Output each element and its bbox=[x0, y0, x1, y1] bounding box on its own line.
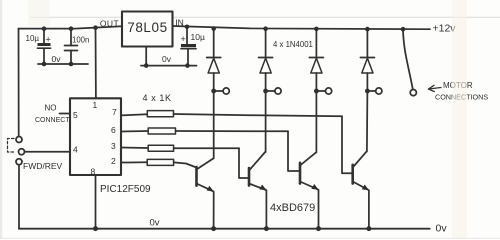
svg-text:0v: 0v bbox=[162, 54, 172, 64]
diode D3 1N4001 bbox=[309, 29, 323, 91]
node dot rail D3 bbox=[314, 27, 319, 32]
svg-text:+: + bbox=[181, 34, 186, 44]
wire regulator ground bbox=[141, 47, 197, 66]
wire 0v stub left bbox=[38, 63, 88, 65]
svg-text:IN: IN bbox=[175, 18, 184, 28]
IC U2 PIC12F509 bbox=[70, 98, 121, 175]
motor terminal node 4 bbox=[365, 88, 382, 94]
node dot rail D2 bbox=[263, 26, 268, 31]
diode D1 1N4001 bbox=[207, 29, 221, 92]
node dot C1 bottom bbox=[42, 62, 47, 67]
node dot C1 top bbox=[42, 26, 47, 31]
svg-text:4: 4 bbox=[73, 145, 78, 155]
node dot pin1 tap bbox=[93, 25, 98, 30]
node dot Q1 emitter rail bbox=[211, 226, 216, 231]
svg-text:CONNECT: CONNECT bbox=[35, 117, 70, 124]
wire base Q3 bbox=[288, 131, 300, 171]
svg-text:+: + bbox=[46, 35, 51, 45]
svg-text:0v: 0v bbox=[436, 223, 448, 235]
capacitor C1 10u bbox=[38, 29, 51, 64]
node dot C2 bottom bbox=[69, 62, 74, 67]
node dot C2 top bbox=[69, 26, 74, 31]
node dot reg gnd bbox=[144, 63, 149, 68]
connector terminal circle B bbox=[19, 149, 25, 155]
svg-text:4 x 1N4001: 4 x 1N4001 bbox=[273, 40, 313, 49]
wire top-left +5V rail bbox=[19, 26, 123, 28]
wire base Q2 bbox=[239, 148, 249, 178]
svg-text:8: 8 bbox=[91, 167, 96, 177]
arrow motor connections bbox=[429, 85, 442, 91]
wire pin4 bbox=[25, 151, 71, 153]
connector dashed bracket bbox=[8, 139, 15, 153]
svg-text:PIC12F509: PIC12F509 bbox=[100, 184, 151, 195]
resistor R2 bbox=[121, 128, 288, 134]
svg-text:1: 1 bbox=[93, 100, 98, 110]
wire motor +12v stub bbox=[403, 29, 413, 89]
node dot C3 bottom bbox=[185, 63, 190, 68]
wire fwd/rev to 0v rail bbox=[18, 165, 20, 229]
node dot rail motor stub bbox=[401, 27, 406, 32]
svg-text:100n: 100n bbox=[72, 36, 89, 45]
pin 5 no-connect stub bbox=[60, 113, 71, 115]
svg-text:4xBD679: 4xBD679 bbox=[270, 202, 315, 214]
capacitor C3 10u bbox=[181, 27, 196, 66]
node dot Q2 emitter rail bbox=[264, 226, 269, 231]
resistor R3 bbox=[121, 145, 239, 151]
node dot Q4 emitter rail bbox=[366, 226, 371, 231]
svg-text:OUT: OUT bbox=[100, 18, 119, 28]
wire pin1 vertical bbox=[95, 28, 97, 99]
svg-text:3: 3 bbox=[111, 141, 116, 151]
motor terminal node 1 bbox=[211, 88, 229, 94]
transistor Q2 BD679 bbox=[249, 91, 267, 229]
node dot C3 top bbox=[185, 25, 190, 30]
diode D4 1N4001 bbox=[360, 29, 374, 91]
capacitor C2 100n bbox=[65, 29, 78, 64]
bottom edge scan band bbox=[0, 238, 500, 239]
svg-text:FWD/REV: FWD/REV bbox=[23, 161, 63, 171]
svg-text:6: 6 bbox=[111, 125, 116, 135]
wire bottom 0v rail bbox=[19, 228, 430, 230]
left edge scan band bbox=[0, 0, 2, 239]
svg-text:0v: 0v bbox=[150, 218, 160, 229]
svg-text:0v: 0v bbox=[52, 54, 62, 64]
svg-text:5: 5 bbox=[73, 110, 78, 120]
svg-text:10µ: 10µ bbox=[26, 34, 40, 43]
svg-text:10µ: 10µ bbox=[191, 32, 205, 42]
node dot rail D1 bbox=[211, 26, 216, 31]
wire pin8 to 0v bbox=[95, 175, 97, 229]
resistor R1 bbox=[121, 111, 342, 117]
node dot pin8 rail bbox=[93, 226, 98, 231]
transistor Q3 BD679 bbox=[300, 91, 319, 229]
wire left vertical down to connector bbox=[18, 29, 20, 137]
svg-text:2: 2 bbox=[111, 156, 116, 166]
transistor Q1 BD679 bbox=[197, 91, 214, 229]
diode D2 1N4001 bbox=[259, 29, 273, 91]
wire IN rail to +12v bbox=[173, 26, 431, 29]
motor terminal node 2 bbox=[263, 88, 281, 94]
ruled paper line bbox=[30, 16, 500, 18]
node dot Q3 emitter rail bbox=[316, 226, 321, 231]
motor terminal node 5 bbox=[410, 90, 416, 96]
transistor Q4 BD679 bbox=[353, 91, 369, 229]
connector terminal circle C fwd/rev bbox=[16, 159, 22, 165]
connector terminal circle A bbox=[16, 137, 22, 143]
regulator U1 78L05 bbox=[122, 12, 173, 47]
node dot rail D4 bbox=[365, 27, 370, 32]
motor terminal node 3 bbox=[314, 88, 332, 94]
svg-text:7: 7 bbox=[112, 107, 117, 117]
svg-text:78L05: 78L05 bbox=[127, 20, 168, 35]
wire base Q4 bbox=[342, 116, 353, 173]
svg-text:NO: NO bbox=[45, 104, 57, 113]
svg-text:4 x 1K: 4 x 1K bbox=[143, 93, 172, 103]
resistor R4 bbox=[121, 159, 197, 167]
